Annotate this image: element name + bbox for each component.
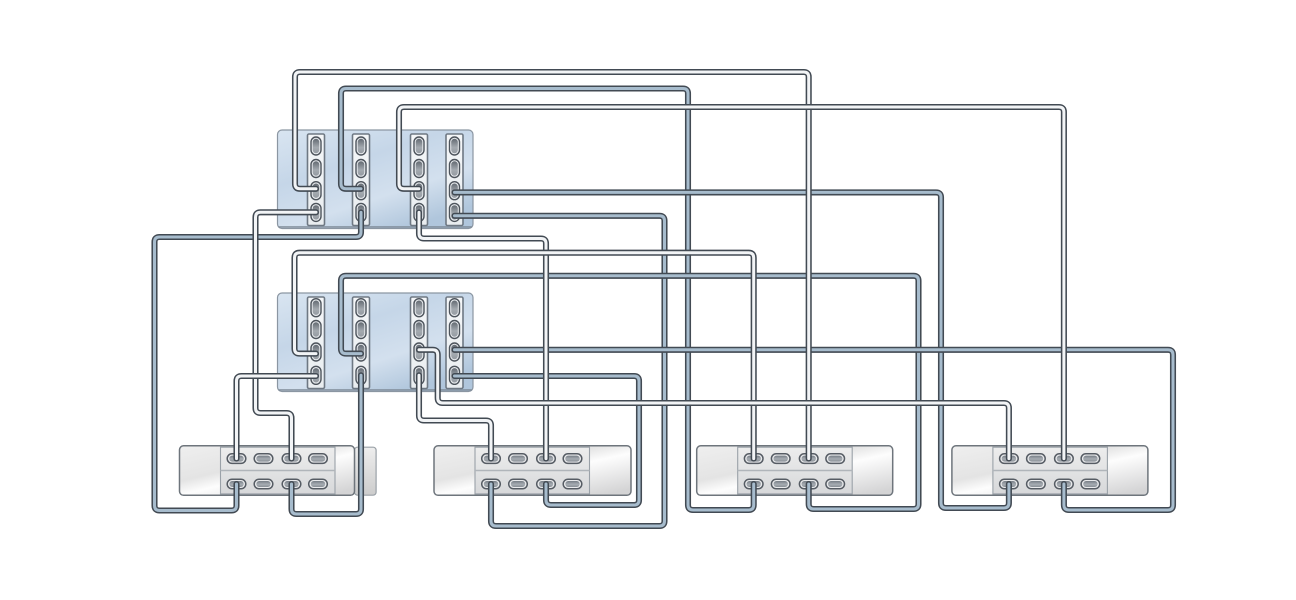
SAS cable: controller A HBA2 port3 to shelf 1 IOM-bottom port0 xyxy=(155,212,362,510)
SAS port 3 of controller B HBA2 xyxy=(356,366,366,384)
SAS port 1 of controller A HBA1 xyxy=(311,160,321,178)
SAS port 0 of shelf 4 top IOM xyxy=(1000,454,1019,464)
SAS port 3 of shelf 1 top IOM xyxy=(309,454,328,464)
SAS port 0 of shelf 3 bottom IOM xyxy=(744,479,763,489)
HBA2 card of controller A xyxy=(353,134,370,226)
SAS cable: controller B HBA4 port2 to shelf 4 IOM-bottom port2 xyxy=(455,350,1174,510)
HBA1 card of controller B xyxy=(308,297,325,389)
controller B (bottom storage controller) xyxy=(278,293,474,392)
SAS port 1 of controller B HBA4 xyxy=(450,321,460,339)
HBA1 card of controller A xyxy=(308,134,325,226)
SAS port 3 of controller A HBA1 xyxy=(311,203,321,221)
HBA2 card of controller B xyxy=(353,297,370,389)
SAS cable: controller B HBA3 port2 to shelf 4 IOM-top port0 xyxy=(419,350,1009,459)
SAS port 2 of shelf 4 top IOM xyxy=(1055,454,1074,464)
SAS port 1 of shelf 4 top IOM xyxy=(1027,454,1046,464)
SAS cable: controller B HBA1 port2 to shelf 3 IOM-top port0 xyxy=(295,253,754,459)
SAS port 0 of controller B HBA2 xyxy=(356,299,366,317)
SAS cable: controller B HBA2 port2 to shelf 3 IOM-bottom port2 xyxy=(341,276,919,509)
SAS port 2 of controller B HBA3 xyxy=(414,343,424,361)
SAS port 0 of controller B HBA4 xyxy=(450,299,460,317)
SAS port 0 of shelf 1 bottom IOM xyxy=(227,479,246,489)
SAS port 3 of shelf 3 bottom IOM xyxy=(826,479,845,489)
SAS port 0 of controller A HBA3 xyxy=(414,137,424,155)
SAS cable: controller A HBA3 port2 to shelf 4 IOM-top port2 xyxy=(399,107,1064,459)
SAS port 3 of controller B HBA1 xyxy=(311,366,321,384)
SAS cable: controller B HBA1 port3 to shelf 1 IOM-top port0 xyxy=(237,376,317,459)
SAS port 1 of shelf 4 bottom IOM xyxy=(1027,479,1046,489)
SAS port 0 of controller A HBA2 xyxy=(356,137,366,155)
SAS port 1 of shelf 3 bottom IOM xyxy=(771,479,790,489)
SAS cable: controller A HBA1 port3 to shelf 1 IOM-top port2 xyxy=(256,212,317,458)
SAS port 2 of shelf 3 top IOM xyxy=(799,454,818,464)
SAS port 2 of controller A HBA1 xyxy=(311,182,321,200)
SAS port 2 of shelf 4 bottom IOM xyxy=(1055,479,1074,489)
SAS port 1 of controller A HBA4 xyxy=(450,160,460,178)
SAS port 3 of shelf 2 bottom IOM xyxy=(563,479,582,489)
SAS port 0 of shelf 2 bottom IOM xyxy=(482,479,501,489)
SAS port 3 of shelf 4 bottom IOM xyxy=(1081,479,1100,489)
SAS port 2 of shelf 2 bottom IOM xyxy=(537,479,556,489)
SAS cable: controller A HBA4 port3 to shelf 2 IOM-bottom port0 xyxy=(455,216,665,526)
SAS port 1 of shelf 1 bottom IOM xyxy=(254,479,273,489)
SAS port 2 of shelf 1 bottom IOM xyxy=(282,479,301,489)
SAS port 3 of shelf 4 top IOM xyxy=(1081,454,1100,464)
SAS port 2 of controller A HBA2 xyxy=(356,182,366,200)
SAS port 3 of controller A HBA3 xyxy=(414,203,424,221)
SAS port 2 of controller B HBA1 xyxy=(311,343,321,361)
SAS cable: controller A HBA1 port2 to shelf 3 IOM-top port0 xyxy=(295,72,809,459)
HBA3 card of controller B xyxy=(411,297,428,389)
SAS port 1 of shelf 3 top IOM xyxy=(771,454,790,464)
SAS port 2 of shelf 1 top IOM xyxy=(282,454,301,464)
SAS port 0 of shelf 2 top IOM xyxy=(482,454,501,464)
SAS cable: controller B HBA4 port3 to shelf 2 IOM-bottom port2 xyxy=(455,376,640,505)
SAS port 1 of shelf 1 top IOM xyxy=(254,454,273,464)
SAS port 2 of controller A HBA3 xyxy=(414,182,424,200)
HBA3 card of controller A xyxy=(411,134,428,226)
SAS cable: controller A HBA4 port2 to shelf 4 IOM-bottom port0 xyxy=(455,192,1009,508)
SAS port 2 of shelf 3 bottom IOM xyxy=(799,479,818,489)
SAS port 1 of controller B HBA1 xyxy=(311,321,321,339)
disk shelf 4 xyxy=(952,446,1148,496)
SAS port 1 of shelf 2 top IOM xyxy=(509,454,528,464)
SAS port 3 of shelf 3 top IOM xyxy=(826,454,845,464)
SAS port 2 of shelf 2 top IOM xyxy=(537,454,556,464)
SAS port 0 of shelf 4 bottom IOM xyxy=(1000,479,1019,489)
SAS port 1 of shelf 2 bottom IOM xyxy=(509,479,528,489)
controller A (top storage controller) xyxy=(278,130,474,229)
SAS port 0 of controller B HBA3 xyxy=(414,299,424,317)
SAS port 2 of controller B HBA4 xyxy=(450,343,460,361)
SAS cable: controller A HBA3 port3 to shelf 2 IOM-top port2 xyxy=(419,212,546,458)
disk shelf 3 xyxy=(697,446,893,496)
SAS port 3 of shelf 1 bottom IOM xyxy=(309,479,328,489)
SAS port 0 of shelf 3 top IOM xyxy=(744,454,763,464)
SAS port 0 of controller A HBA1 xyxy=(311,137,321,155)
SAS port 0 of controller B HBA1 xyxy=(311,299,321,317)
SAS cable: controller A HBA2 port2 to shelf 3 IOM-bottom port0 xyxy=(341,89,754,511)
SAS port 1 of controller A HBA2 xyxy=(356,160,366,178)
SAS cable: controller B HBA2 port3 to shelf 1 IOM-bottom port2 xyxy=(292,375,362,514)
SAS port 3 of shelf 2 top IOM xyxy=(563,454,582,464)
SAS port 3 of controller A HBA2 xyxy=(356,203,366,221)
SAS port 3 of controller B HBA3 xyxy=(414,366,424,384)
SAS port 2 of controller B HBA2 xyxy=(356,343,366,361)
SAS port 1 of controller A HBA3 xyxy=(414,160,424,178)
SAS port 1 of controller B HBA3 xyxy=(414,321,424,339)
SAS port 2 of controller A HBA4 xyxy=(450,182,460,200)
SAS port 0 of controller A HBA4 xyxy=(450,137,460,155)
SAS port 0 of shelf 1 top IOM xyxy=(227,454,246,464)
SAS cable: controller B HBA3 port3 to shelf 2 IOM-top port0 xyxy=(419,375,491,458)
disk shelf 1 xyxy=(180,446,377,496)
SAS port 3 of controller A HBA4 xyxy=(450,203,460,221)
SAS port 1 of controller B HBA2 xyxy=(356,321,366,339)
HBA4 card of controller A xyxy=(446,134,463,226)
disk shelf 2 xyxy=(434,446,631,496)
HBA4 card of controller B xyxy=(446,297,463,389)
SAS port 3 of controller B HBA4 xyxy=(450,366,460,384)
